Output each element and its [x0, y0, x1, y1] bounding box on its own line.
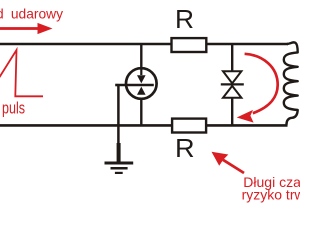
red curved arrow (clamping loop) — [245, 54, 278, 113]
svg-text:puls: puls — [2, 100, 25, 118]
svg-text:ryzyko trwałego: ryzyko trwałego — [242, 187, 300, 203]
wire: branch from source mid to ground — [116, 84, 119, 86]
svg-text:Prąd udarowy: Prąd udarowy — [0, 6, 63, 21]
resistor R1 (top) — [172, 38, 207, 52]
surge impulse waveform (red) — [0, 50, 43, 97]
wire: bottom lead of current source — [140, 92, 142, 125]
svg-text:R: R — [175, 133, 195, 163]
resistor R2 (bottom) — [172, 119, 206, 133]
load coil L1 (right edge) — [284, 42, 298, 125]
TVS diode D1 (bidirectional) — [221, 44, 244, 125]
wire: top rail right of R1 — [207, 43, 289, 45]
impulse current source U1 — [115, 68, 156, 99]
red arrow (surge current direction) — [0, 23, 53, 34]
wire: bottom rail left — [0, 124, 172, 127]
wire: top lead of current source — [140, 44, 142, 68]
red pointer arrow (to R2/TVS junction) — [223, 160, 244, 173]
wire: bottom rail right of R2 — [207, 124, 288, 127]
wire: top rail left — [0, 43, 171, 45]
svg-text:R: R — [175, 6, 194, 34]
ground — [105, 163, 134, 173]
